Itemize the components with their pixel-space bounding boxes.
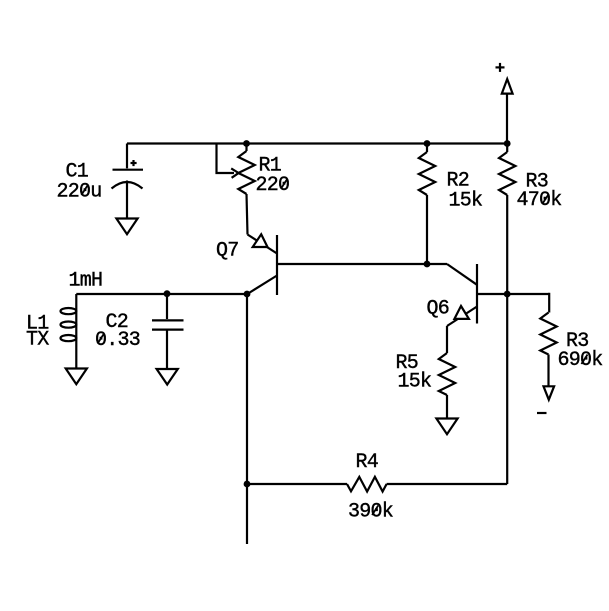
svg-text:15k: 15k (398, 371, 432, 394)
wire Q7 base drop (246, 294, 248, 544)
node dot R2 bottom (424, 261, 431, 268)
wire Q7 collector to R2/Q6 (277, 263, 447, 265)
node dot R3 top (504, 140, 511, 147)
svg-text:220u: 220u (57, 181, 102, 204)
label - (537, 412, 547, 414)
capacitor C2 (152, 294, 184, 369)
svg-text:220: 220 (256, 174, 290, 197)
ground (L1) (66, 369, 87, 385)
transistor Q6 (447, 264, 550, 353)
resistor R3 470k (499, 144, 515, 485)
capacitor C1 (112, 144, 144, 219)
label + (496, 63, 505, 72)
svg-text:390k: 390k (348, 501, 393, 524)
transistor Q7 (247, 234, 277, 295)
ground (C1) (116, 219, 137, 235)
resistor R2 (419, 144, 435, 265)
svg-text:R4: R4 (356, 451, 379, 474)
node dot R2 top (424, 140, 431, 147)
ground (C2) (157, 369, 178, 385)
power + arrow (502, 79, 513, 94)
node dot R4 left (244, 481, 251, 488)
inductor L1 (61, 294, 77, 369)
node dot Q7 base (244, 291, 251, 298)
svg-text:690k: 690k (558, 349, 603, 372)
svg-text:TX: TX (26, 329, 49, 352)
slashed zeros (81, 179, 587, 515)
resistor R1 (trimmer) (238, 144, 254, 235)
node dot crossing (504, 291, 511, 298)
svg-text:15k: 15k (449, 190, 483, 213)
resistor R5 (439, 353, 455, 419)
svg-text:0.33: 0.33 (95, 329, 140, 352)
power - arrow (544, 386, 555, 399)
resistor R3 690k (540, 293, 556, 386)
node dot C2 tap (164, 290, 171, 297)
svg-text:470k: 470k (517, 189, 562, 212)
svg-text:Q7: Q7 (216, 240, 239, 263)
wire left net (76, 293, 247, 295)
svg-text:1mH: 1mH (69, 270, 103, 293)
R1 wiper arrow (217, 144, 239, 178)
resistor R4 (247, 477, 507, 492)
wire top rail (127, 142, 507, 144)
wire supply riser (506, 94, 508, 144)
svg-text:Q6: Q6 (427, 298, 450, 321)
ground (R5) (436, 419, 457, 435)
node dot R1 top (243, 140, 250, 147)
